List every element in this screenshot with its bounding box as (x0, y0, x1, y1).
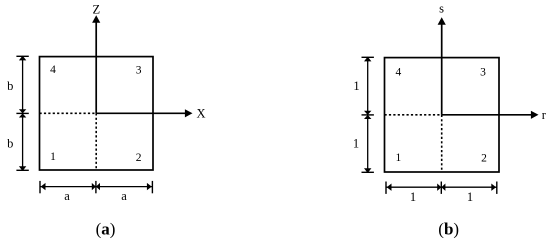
svg-text:(a): (a) (96, 219, 116, 238)
svg-text:3: 3 (136, 65, 142, 77)
r axis (442, 111, 539, 119)
svg-text:1: 1 (353, 79, 359, 93)
label 1 lower (vertical dim b) (353, 137, 359, 151)
svg-text:1: 1 (467, 190, 473, 204)
label 1 right (horizontal dim b) (467, 190, 473, 204)
X axis (96, 109, 192, 117)
svg-text:1: 1 (50, 151, 56, 163)
svg-text:4: 4 (396, 67, 402, 79)
dashed negative Z axis (95, 113, 97, 170)
label Z (92, 2, 100, 16)
svg-text:2: 2 (136, 152, 142, 164)
label r (542, 108, 547, 122)
label 1 left (horizontal dim b) (410, 190, 416, 204)
svg-text:1: 1 (396, 152, 402, 164)
label X (196, 107, 205, 121)
svg-text:r: r (542, 108, 547, 122)
quadrant label 2 (b) (481, 153, 487, 165)
dashed negative r axis (385, 114, 442, 116)
quadrant label 1 (a) (50, 151, 56, 163)
svg-text:(b): (b) (438, 220, 459, 239)
caption (b) (438, 220, 459, 239)
svg-text:3: 3 (480, 67, 486, 79)
dashed negative X axis (40, 112, 97, 114)
quadrant label 4 (a) (50, 64, 56, 76)
square (b) outline (385, 58, 500, 172)
svg-text:b: b (7, 136, 13, 150)
quadrant label 3 (a) (136, 65, 142, 77)
b dimension line (vertical, left of square a) (16, 56, 28, 171)
svg-text:4: 4 (50, 64, 56, 76)
svg-text:a: a (121, 189, 127, 203)
svg-text:s: s (439, 2, 444, 16)
unit dimension line (horizontal, below square b) (386, 182, 497, 194)
a dimension line (horizontal, below square a) (40, 181, 152, 193)
s axis (438, 17, 446, 115)
label a right (121, 189, 127, 203)
quadrant label 3 (b) (480, 67, 486, 79)
svg-text:a: a (64, 189, 70, 203)
svg-text:2: 2 (481, 153, 487, 165)
label a left (64, 189, 70, 203)
svg-text:1: 1 (353, 137, 359, 151)
caption (a) (96, 219, 116, 238)
quadrant label 2 (a) (136, 152, 142, 164)
quadrant label 4 (b) (396, 67, 402, 79)
quadrant label 1 (b) (396, 152, 402, 164)
Z axis (92, 15, 100, 113)
svg-text:b: b (7, 79, 13, 93)
square (a) outline (40, 57, 154, 170)
svg-text:1: 1 (410, 190, 416, 204)
label b upper (7, 79, 13, 93)
label b lower (7, 136, 13, 150)
unit dimension line (vertical, left of square b) (362, 57, 374, 173)
svg-text:X: X (196, 107, 205, 121)
dashed negative s axis (441, 115, 443, 172)
label s (439, 2, 444, 16)
svg-text:Z: Z (92, 2, 100, 16)
label 1 upper (vertical dim b) (353, 79, 359, 93)
